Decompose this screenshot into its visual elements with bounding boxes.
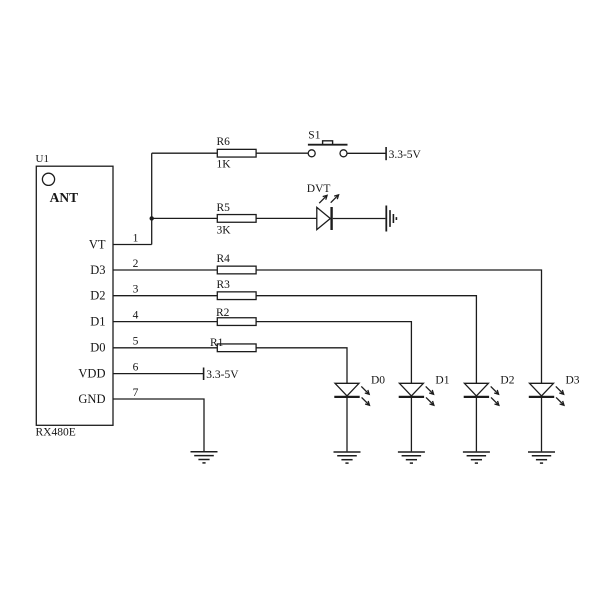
wire VT riser to R6 row [151, 153, 153, 244]
svg-text:R6: R6 [217, 136, 231, 148]
wire pin3 to R3 [113, 295, 217, 297]
svg-text:R1: R1 [210, 337, 224, 349]
resistor R6 [217, 149, 256, 157]
D2 emission arrow 2 [491, 397, 499, 405]
supply terminal bar (VDD) [203, 368, 205, 381]
wire pin5 to R1 [113, 347, 217, 349]
D0 emission arrow 1 [361, 386, 369, 394]
DVT emission arrow 1 [319, 195, 327, 203]
DVT emission arrow 2 [331, 195, 339, 203]
wire LED D0 to ground [346, 398, 348, 451]
svg-text:1K: 1K [217, 158, 232, 170]
resistor R4 [217, 266, 256, 274]
wire S1 to supply terminal [347, 152, 386, 154]
ground (LED D2) [463, 452, 490, 463]
svg-text:D0: D0 [90, 341, 105, 355]
antenna pad circle [42, 173, 54, 185]
wire R1 to LED D0 [256, 348, 347, 384]
switch S1 [308, 141, 348, 157]
svg-text:3.3-5V: 3.3-5V [206, 369, 239, 381]
svg-text:4: 4 [133, 309, 139, 321]
LED D2 [464, 383, 489, 397]
LED D1 [399, 383, 424, 397]
ground (LED D0) [334, 452, 361, 463]
svg-text:VDD: VDD [78, 366, 105, 380]
wire pin7 GND [113, 399, 204, 451]
svg-text:2: 2 [133, 258, 139, 270]
svg-text:RX480E: RX480E [36, 426, 76, 438]
ground (GND pin) [191, 452, 218, 463]
D1 emission arrow 1 [426, 386, 434, 394]
svg-text:D2: D2 [90, 289, 105, 303]
LED DVT [317, 207, 332, 230]
svg-text:R5: R5 [217, 202, 231, 214]
svg-text:1: 1 [133, 232, 139, 244]
svg-text:7: 7 [133, 387, 139, 399]
ground (LED D1) [398, 452, 425, 463]
junction node VT/R5 [150, 216, 154, 220]
svg-text:6: 6 [133, 361, 139, 373]
LED D3 [529, 383, 554, 397]
supply terminal bar (top) [385, 147, 387, 160]
wire pin4 to R2 [113, 321, 217, 323]
wire R6 row left [152, 152, 218, 154]
wire R2 to LED D1 [256, 322, 411, 384]
svg-text:S1: S1 [308, 130, 320, 142]
svg-text:ANT: ANT [50, 190, 79, 205]
D3 emission arrow 2 [556, 397, 564, 405]
svg-text:GND: GND [78, 392, 105, 406]
svg-text:3: 3 [133, 284, 139, 296]
resistor R2 [217, 318, 256, 326]
wire R5 to LED DVT [256, 217, 317, 219]
svg-text:DVT: DVT [307, 183, 331, 195]
wire R5 row left [152, 217, 218, 219]
svg-text:3.3-5V: 3.3-5V [389, 149, 422, 161]
LED D0 [334, 383, 359, 397]
ground (rotated, DVT) [386, 206, 396, 232]
svg-text:D1: D1 [435, 374, 449, 386]
wire R4 to LED D3 [256, 270, 541, 383]
svg-text:D1: D1 [90, 315, 105, 329]
svg-text:D3: D3 [90, 263, 105, 277]
wire DVT to ground [333, 218, 386, 220]
wire R3 to LED D2 [256, 296, 476, 384]
wire pin1 VT stub [113, 244, 152, 246]
D0 emission arrow 2 [362, 397, 370, 405]
svg-text:D2: D2 [500, 374, 514, 386]
wire R6 to S1 [256, 152, 308, 154]
svg-text:R2: R2 [216, 307, 230, 319]
resistor R3 [217, 292, 256, 300]
svg-text:D3: D3 [566, 374, 580, 386]
IC U1 body [36, 166, 113, 425]
svg-text:R3: R3 [217, 279, 231, 291]
wire pin2 to R4 [113, 269, 217, 271]
svg-text:D0: D0 [371, 374, 385, 386]
D3 emission arrow 1 [556, 386, 564, 394]
svg-text:3K: 3K [217, 224, 232, 236]
ground (LED D3) [528, 452, 555, 463]
svg-text:5: 5 [133, 336, 139, 348]
wire LED D2 to ground [475, 398, 477, 451]
D2 emission arrow 1 [491, 386, 499, 394]
svg-text:R4: R4 [217, 253, 231, 265]
wire pin6 VDD to supply [113, 373, 204, 375]
svg-text:VT: VT [89, 237, 106, 251]
D1 emission arrow 2 [426, 397, 434, 405]
resistor R5 [217, 215, 256, 223]
resistor R1 [217, 344, 256, 352]
svg-text:U1: U1 [36, 153, 49, 165]
wire LED D1 to ground [410, 398, 412, 451]
wire LED D3 to ground [541, 398, 543, 451]
